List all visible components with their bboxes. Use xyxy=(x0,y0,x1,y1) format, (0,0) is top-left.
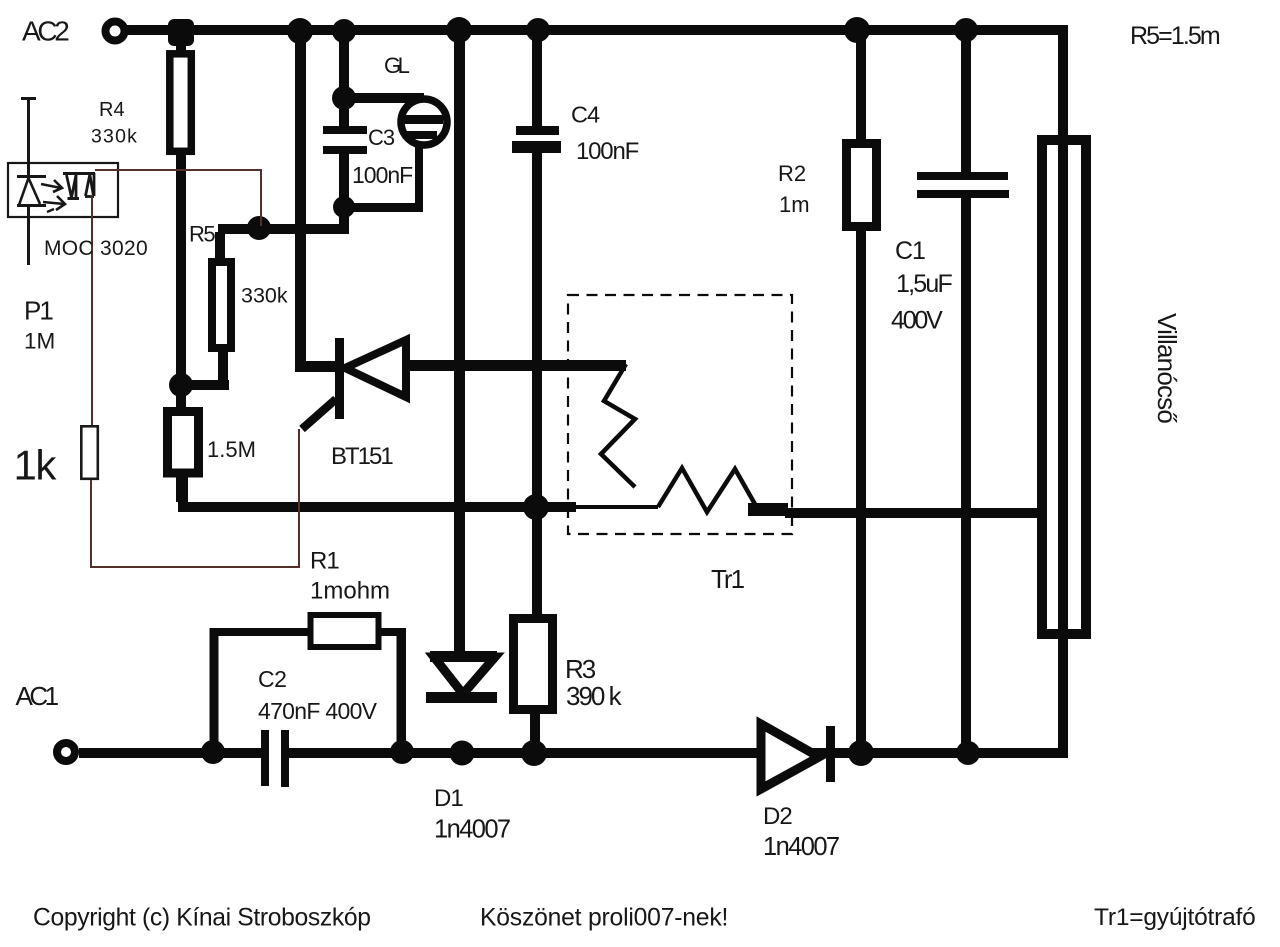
svg-text:100nF: 100nF xyxy=(576,138,639,165)
svg-text:1k: 1k xyxy=(14,442,58,489)
label 100nF C3 xyxy=(352,162,413,188)
svg-text:1n4007: 1n4007 xyxy=(434,816,510,844)
node bottom x211 xyxy=(201,740,225,764)
label C3 xyxy=(368,125,395,150)
node C3 bottom junction xyxy=(333,196,355,218)
svg-text:470nF 400V: 470nF 400V xyxy=(258,698,378,724)
svg-text:R1: R1 xyxy=(310,548,339,575)
transformer Tr1 box xyxy=(568,295,792,534)
svg-text:330k: 330k xyxy=(91,126,138,148)
wire GL branch vertical xyxy=(339,30,349,103)
wire vertical x459 D1 branch xyxy=(454,30,465,655)
node rail x857 xyxy=(844,17,870,43)
label R5=1.5m xyxy=(1130,22,1220,50)
wire secondary to tube xyxy=(748,503,1044,518)
label 100nF C4 xyxy=(576,138,639,165)
wire triac to R5 junction xyxy=(95,170,261,226)
wire R5 horizontal xyxy=(218,224,345,234)
triac in MOC3020 xyxy=(63,173,95,199)
node bottom x861 xyxy=(848,740,874,766)
svg-text:390 k: 390 k xyxy=(566,681,623,711)
label 1.5M xyxy=(207,437,256,462)
label AC2 xyxy=(22,16,69,47)
wire GL top xyxy=(344,93,424,103)
node GL top junction xyxy=(332,86,356,110)
label 330k R5 xyxy=(241,284,288,308)
svg-text:1,5uF: 1,5uF xyxy=(896,270,952,298)
label Tr1 xyxy=(711,564,745,594)
resistor R5 330k xyxy=(212,232,231,348)
svg-text:BT151: BT151 xyxy=(331,443,393,470)
label R3 390k xyxy=(565,654,623,711)
label copyright xyxy=(33,905,371,932)
svg-text:400V: 400V xyxy=(891,307,943,335)
diode D1 xyxy=(426,651,497,703)
wire R1 loop xyxy=(210,628,407,752)
inductor Tr1 secondary xyxy=(658,468,760,513)
svg-text:P1: P1 xyxy=(24,296,53,326)
svg-text:1n4007: 1n4007 xyxy=(763,833,839,861)
node bottom x462 xyxy=(450,741,475,766)
node rail x538 xyxy=(526,18,550,42)
svg-text:AC2: AC2 xyxy=(22,16,69,47)
node R4 top junction xyxy=(168,19,194,46)
node rail x966 xyxy=(954,18,978,42)
label R1 1mohm xyxy=(310,548,390,605)
thyristor BT151 xyxy=(302,338,406,429)
resistor R4 xyxy=(170,54,192,152)
resistor R2 xyxy=(847,30,877,753)
wire vertical x537 C4 branch xyxy=(532,30,542,127)
svg-text:R3: R3 xyxy=(565,654,596,684)
diode D2 xyxy=(761,724,835,789)
node rail x459 xyxy=(446,17,472,43)
lamp GL xyxy=(401,99,447,145)
label D1 1n4007 xyxy=(434,785,510,844)
wire R4 branch vertical xyxy=(176,30,186,502)
wire bottom rail right xyxy=(289,748,1068,758)
label R4 xyxy=(91,99,138,148)
label P1 1M xyxy=(24,296,55,354)
svg-text:GL: GL xyxy=(384,53,410,78)
node gate bus junction xyxy=(523,494,549,520)
terminal AC2 xyxy=(106,22,125,41)
svg-text:Villanócső: Villanócső xyxy=(1152,313,1182,423)
label Tr1=gyujtotrafo xyxy=(1094,904,1256,931)
wire triac to 1k xyxy=(91,195,93,425)
node R5 junction xyxy=(247,216,271,240)
svg-text:AC1: AC1 xyxy=(16,681,59,711)
svg-text:D2: D2 xyxy=(763,803,792,830)
label koszonet xyxy=(480,905,728,932)
wire gate bus horizontal xyxy=(178,502,658,512)
svg-text:C1: C1 xyxy=(895,237,925,265)
label C4 xyxy=(571,102,600,128)
terminal AC1 xyxy=(57,743,75,761)
light arrows xyxy=(41,180,65,212)
svg-text:R2: R2 xyxy=(778,161,806,186)
wire 1.5M bottom corner xyxy=(178,474,188,512)
node rail x344 xyxy=(332,19,356,43)
label MOC 3020 xyxy=(44,237,148,260)
svg-text:330k: 330k xyxy=(241,284,288,308)
svg-text:D1: D1 xyxy=(434,785,463,812)
wire vertical x298 xyxy=(295,30,306,372)
label AC1 xyxy=(16,681,59,711)
label R2 1m xyxy=(778,161,810,217)
wire junction to R5 bottom xyxy=(176,348,229,390)
wire top rail AC2 xyxy=(127,25,1068,35)
label GL xyxy=(384,53,410,78)
resistor R3 xyxy=(514,619,553,752)
wire BT151 cathode lead xyxy=(295,361,344,372)
svg-text:R4: R4 xyxy=(99,99,125,121)
inductor Tr1 primary xyxy=(601,364,635,487)
svg-text:1mohm: 1mohm xyxy=(310,578,390,605)
capacitor C3 xyxy=(323,93,367,234)
svg-text:1m: 1m xyxy=(779,192,810,217)
resistor R1 xyxy=(311,615,379,647)
label C2 470nF xyxy=(258,666,378,724)
node bottom x411 xyxy=(390,740,414,764)
capacitor C2 xyxy=(261,730,289,787)
capacitor C1 xyxy=(917,30,1009,755)
svg-text:Tr1=gyújtótrafó: Tr1=gyújtótrafó xyxy=(1094,904,1256,931)
optocoupler MOC3020 box xyxy=(8,163,118,217)
wire LED input lead xyxy=(21,97,36,265)
node rail x299 xyxy=(287,18,313,44)
wire trigger electrode xyxy=(1058,25,1068,757)
wire bottom rail left xyxy=(79,748,261,758)
node junction R4/1.5M xyxy=(169,373,193,397)
resistor 1k xyxy=(81,426,98,479)
svg-text:C4: C4 xyxy=(571,102,600,128)
svg-text:C3: C3 xyxy=(368,125,395,150)
label R5 xyxy=(189,222,215,247)
label BT151 xyxy=(331,443,393,470)
label Villanocso xyxy=(1152,313,1182,423)
svg-text:R5: R5 xyxy=(189,222,215,247)
label C1 xyxy=(891,237,952,335)
node bottom x968 xyxy=(956,741,980,765)
svg-text:C2: C2 xyxy=(258,666,286,692)
label 1k xyxy=(14,442,58,489)
wire BT151 anode xyxy=(404,360,626,371)
resistor P1 1.5M xyxy=(168,412,199,474)
svg-text:Köszönet proli007-nek!: Köszönet proli007-nek! xyxy=(480,905,728,932)
svg-text:1.5M: 1.5M xyxy=(207,437,256,462)
capacitor C4 xyxy=(512,126,561,614)
wire GL right side xyxy=(344,142,423,212)
svg-text:1M: 1M xyxy=(24,329,55,354)
svg-text:100nF: 100nF xyxy=(352,162,413,188)
svg-text:R5=1.5m: R5=1.5m xyxy=(1130,22,1220,50)
flash tube Villanocso xyxy=(1042,140,1086,634)
wire 1k to gate xyxy=(91,429,299,567)
svg-text:Copyright (c) Kínai Stroboszkó: Copyright (c) Kínai Stroboszkóp xyxy=(33,905,371,932)
svg-text:MOC 3020: MOC 3020 xyxy=(44,237,148,260)
diode LED in MOC3020 xyxy=(17,177,46,206)
label D2 1n4007 xyxy=(763,803,839,861)
svg-text:Tr1: Tr1 xyxy=(711,564,745,594)
node bottom x533 xyxy=(521,740,547,766)
